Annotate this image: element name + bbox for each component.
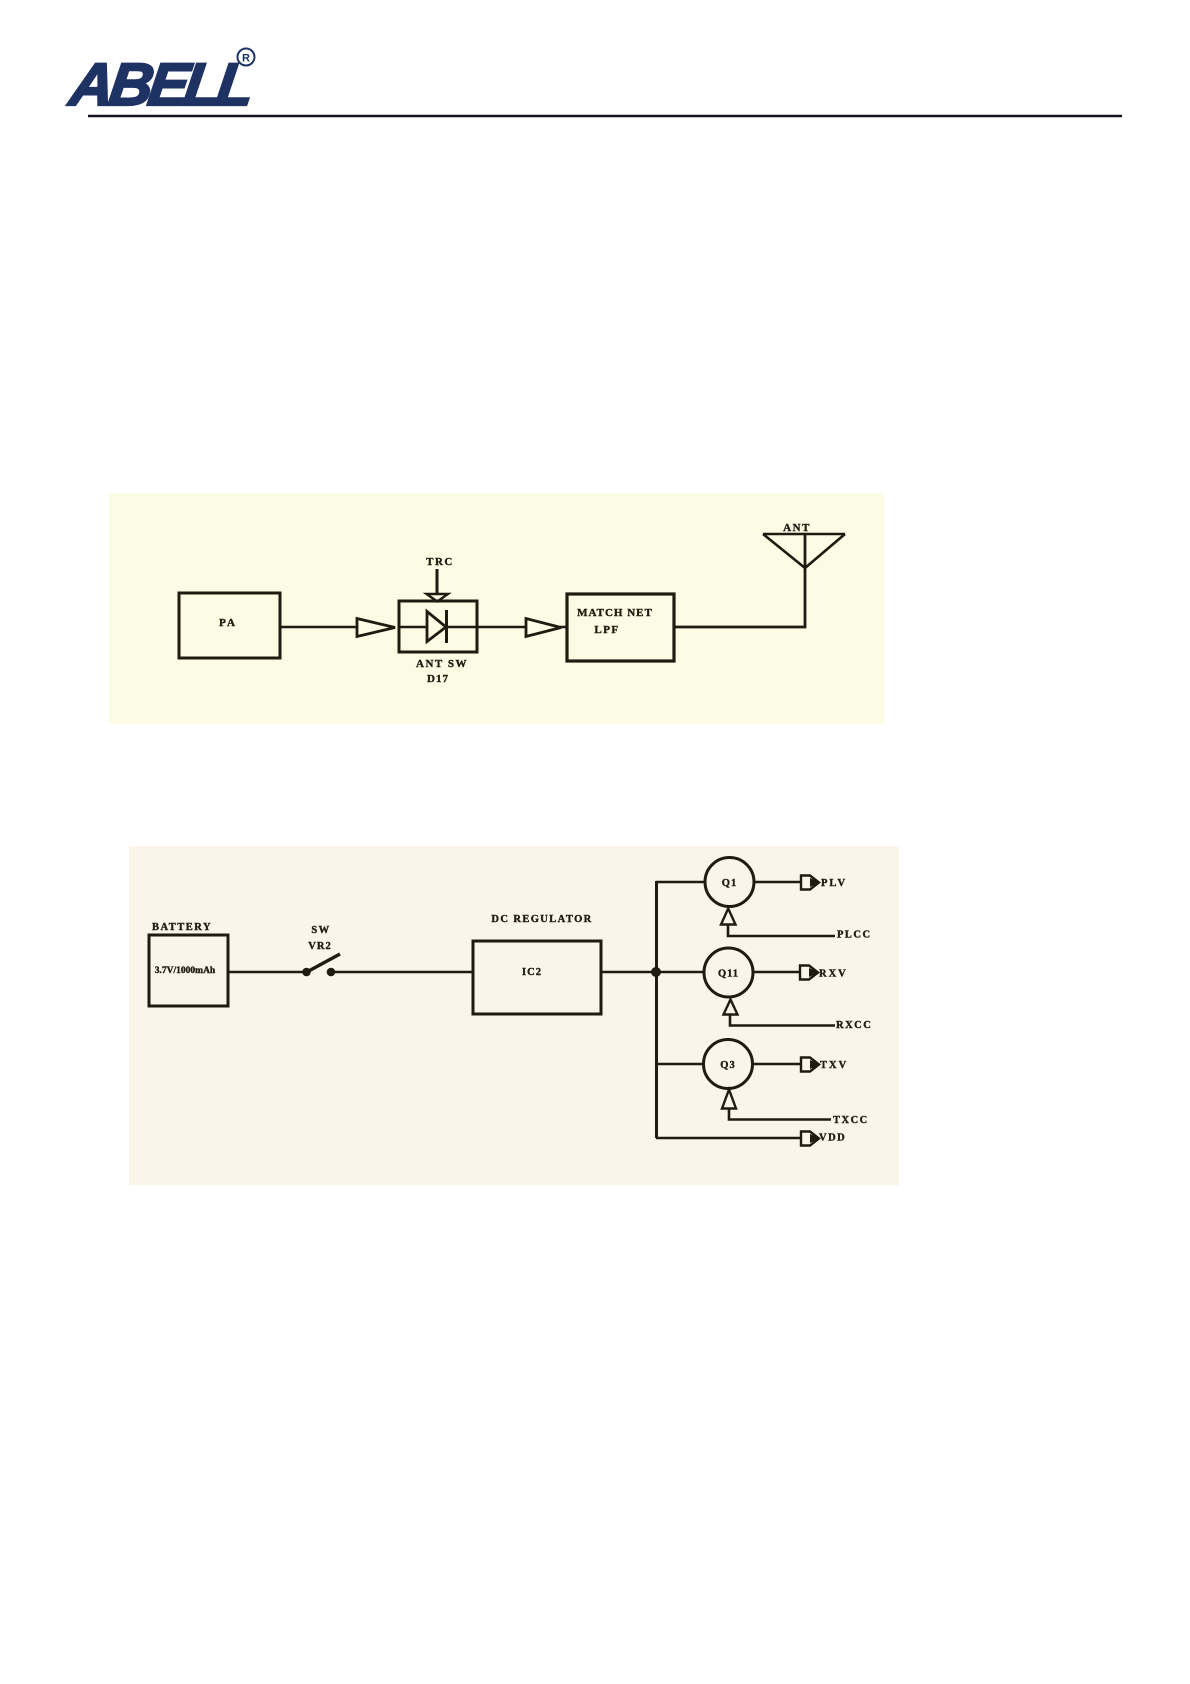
- panel 1 background: [109, 493, 884, 724]
- MATCH NET LPF box: [567, 594, 674, 661]
- PLV port: [801, 876, 820, 890]
- PA block: [179, 593, 280, 658]
- svg-text:TXCC: TXCC: [833, 1115, 869, 1126]
- vertical bus: [655, 881, 658, 1138]
- VDD wire: [656, 1137, 801, 1140]
- transistor Q3: [704, 1040, 753, 1089]
- svg-text:VDD: VDD: [819, 1133, 846, 1144]
- RXCC arrow into Q11: [724, 1000, 738, 1015]
- svg-text:TXV: TXV: [820, 1060, 848, 1071]
- wire Q1 to PLV port: [754, 881, 801, 884]
- RXV port: [800, 966, 819, 980]
- svg-text:ABELL: ABELL: [64, 50, 256, 118]
- switch SW VR2: [302, 925, 340, 976]
- svg-text:R: R: [242, 53, 250, 65]
- svg-text:IC2: IC2: [522, 967, 542, 978]
- ABELL logo: [64, 49, 256, 118]
- svg-text:SW: SW: [311, 925, 330, 936]
- svg-text:VR2: VR2: [308, 941, 331, 952]
- svg-text:BATTERY: BATTERY: [152, 922, 212, 933]
- svg-text:RXV: RXV: [819, 969, 848, 980]
- TRC arrowhead: [427, 594, 449, 602]
- diode box ANT SW: [399, 601, 477, 652]
- amp arrow 2: [526, 619, 561, 637]
- svg-text:ANT SW: ANT SW: [416, 658, 468, 670]
- wire switch to IC2: [331, 971, 473, 974]
- svg-text:Q11: Q11: [718, 969, 739, 980]
- wire amp2 to match box: [560, 626, 568, 629]
- svg-text:PLV: PLV: [821, 878, 847, 889]
- svg-text:TRC: TRC: [426, 556, 454, 568]
- TRC wire: [436, 569, 439, 594]
- svg-text:Q3: Q3: [720, 1060, 735, 1071]
- antenna ANT: [763, 522, 845, 568]
- wire into diode: [400, 626, 428, 629]
- wire battery to switch: [228, 971, 304, 974]
- IC2 box: [473, 941, 601, 1014]
- wire Q3 to TXV port: [753, 1063, 802, 1066]
- junction node: [651, 967, 661, 977]
- svg-text:MATCH NET: MATCH NET: [577, 607, 653, 619]
- wire Q11 to RXV port: [753, 971, 800, 974]
- panel 2 background: [129, 846, 899, 1185]
- svg-text:LPF: LPF: [594, 624, 619, 636]
- branch wire to Q1: [656, 881, 705, 884]
- TXV port: [801, 1058, 820, 1072]
- wire IC2 to Q11: [601, 971, 704, 974]
- transistor Q1: [705, 858, 754, 907]
- transistor Q11: [704, 948, 753, 997]
- PLCC wire: [728, 925, 835, 937]
- svg-text:D17: D17: [427, 673, 449, 685]
- svg-text:3.7V/1000mAh: 3.7V/1000mAh: [155, 966, 216, 976]
- RXCC wire: [730, 1015, 835, 1026]
- svg-text:PA: PA: [219, 617, 237, 629]
- wire PA to amp1: [280, 626, 357, 629]
- battery block: [149, 922, 228, 1006]
- svg-text:Q1: Q1: [722, 878, 737, 889]
- svg-text:ANT: ANT: [783, 522, 811, 534]
- branch wire to Q3: [656, 1063, 704, 1066]
- VDD port: [801, 1132, 820, 1146]
- diode D17: [427, 610, 447, 643]
- svg-text:RXCC: RXCC: [836, 1020, 872, 1031]
- svg-text:DC REGULATOR: DC REGULATOR: [491, 914, 592, 925]
- header rule: [88, 115, 1122, 117]
- wire match box to antenna: [674, 568, 805, 627]
- TXCC arrow into Q3: [722, 1090, 736, 1109]
- wire diode to amp2: [446, 626, 526, 629]
- PLCC arrow into Q1: [721, 909, 736, 925]
- amp arrow 1: [357, 619, 395, 637]
- svg-text:PLCC: PLCC: [837, 930, 872, 941]
- TXCC wire: [729, 1109, 831, 1120]
